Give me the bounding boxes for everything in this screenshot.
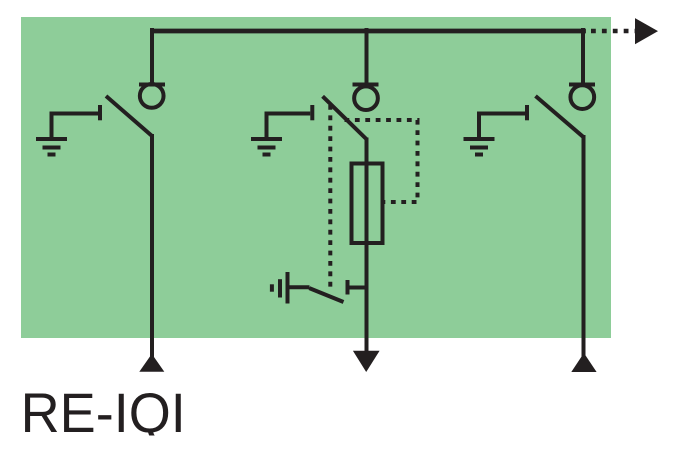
wire: feeder conductor Q1 to cable terminal xyxy=(150,134,154,360)
wire: busbar drop to switch Q1 xyxy=(150,28,154,85)
wire: earth arm Q1 xyxy=(50,112,99,116)
ground symbol E2 xyxy=(251,139,282,155)
feeder outgoing arrow A2 xyxy=(353,351,380,372)
fuse F1 xyxy=(352,164,383,244)
fixed contact bar Q2 xyxy=(353,83,379,87)
wire: earth arm Q2 xyxy=(265,112,311,116)
wire: busbar drop to switch Q2 xyxy=(365,28,369,85)
earthing contact bar Q1 xyxy=(98,105,102,120)
wire: earth stub Q2 xyxy=(265,112,269,138)
green panel background xyxy=(21,17,611,338)
fixed contact bar Q1 xyxy=(139,83,165,87)
wire: earthing contact to feeder conductor xyxy=(348,286,369,290)
wire: earth stub Q4 xyxy=(477,112,481,138)
wire: busbar drop to switch Q4 xyxy=(581,28,585,85)
ground symbol E1 xyxy=(36,139,67,155)
cable terminal arrow A3 xyxy=(571,353,596,372)
wire: feeder conductor Q4 to cable terminal xyxy=(582,135,586,360)
ground symbol E4 xyxy=(464,139,495,155)
earthing contact bar Q4 xyxy=(525,105,529,120)
contact circle Q2 xyxy=(354,86,378,110)
contact circle Q4 xyxy=(570,85,594,109)
earthing contact bar Q2 xyxy=(310,105,314,120)
earthing contact bar Q3 xyxy=(346,280,350,295)
mechanical linkage (dotted) Q2 to earthing switch xyxy=(328,105,332,288)
busbar xyxy=(150,29,586,34)
wire: earth stub Q1 xyxy=(50,112,54,138)
ground symbol E3 (fuse earthing switch) xyxy=(272,272,288,304)
earthing switch blade Q3 (open) xyxy=(309,288,343,302)
switch blade Q4 (open) xyxy=(536,96,584,137)
svg-text:RE-IQI: RE-IQI xyxy=(21,381,186,444)
switch blade Q1 (open) xyxy=(106,96,153,137)
cable terminal arrow A1 xyxy=(139,354,164,372)
contact circle Q1 xyxy=(140,84,164,108)
fixed contact bar Q4 xyxy=(569,83,595,87)
busbar arrow head xyxy=(635,18,658,44)
fuse striker linkage (dotted) xyxy=(345,120,418,202)
wire: earth arm Q4 xyxy=(477,112,525,116)
busbar outgoing dotted line xyxy=(591,29,636,33)
switch blade Q2 (open) xyxy=(323,96,367,139)
wire: earth arm to blade pivot xyxy=(290,285,310,289)
wire: conductor Q2 to fuse xyxy=(365,138,369,353)
